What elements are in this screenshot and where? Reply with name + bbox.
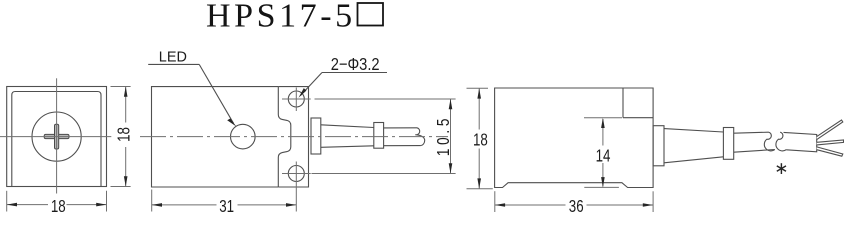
svg-text:2−Φ3.2: 2−Φ3.2: [331, 55, 380, 74]
svg-text:18: 18: [115, 127, 134, 142]
svg-text:14: 14: [596, 147, 611, 166]
svg-text:31: 31: [219, 197, 234, 216]
svg-text:18: 18: [473, 131, 488, 150]
svg-text:36: 36: [569, 197, 584, 216]
svg-text:10.5: 10.5: [434, 115, 453, 156]
svg-text:18: 18: [51, 197, 66, 216]
svg-text:LED: LED: [159, 49, 187, 65]
svg-text:HPS17-5: HPS17-5: [206, 0, 356, 35]
